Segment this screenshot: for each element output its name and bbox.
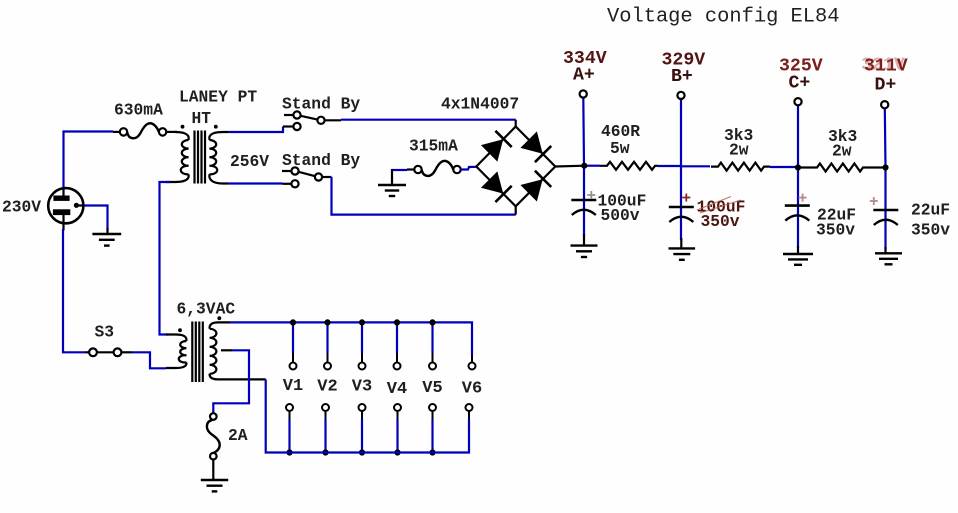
svg-text:256V: 256V — [230, 152, 269, 171]
svg-text:350v: 350v — [911, 221, 950, 240]
wire S1 to bridge top — [341, 119, 516, 121]
terminal V4 heater bottom — [394, 404, 401, 411]
capacitor C2 100uF 350v — [669, 194, 694, 223]
svg-text:V3: V3 — [352, 378, 372, 397]
svg-text:V6: V6 — [462, 380, 482, 399]
diode D1 (left-top) — [482, 131, 512, 161]
wire heater stub V5 top — [431, 322, 433, 353]
svg-text:2w: 2w — [832, 142, 852, 161]
svg-text:5w: 5w — [610, 139, 630, 158]
svg-text:315mA: 315mA — [409, 137, 458, 156]
switch S3 — [86, 348, 132, 356]
wire T2 center tap to fuse F3 — [213, 350, 249, 413]
wire heater stub V3 bottom — [361, 411, 363, 419]
diode D3 (left-bottom) — [482, 172, 512, 202]
svg-text:4x1N4007: 4x1N4007 — [441, 95, 519, 114]
wire heater stub V2 top — [326, 322, 328, 353]
wire ground to fuse F2 — [392, 169, 407, 171]
junction heater bottom V4 — [394, 449, 400, 455]
junction heater top V2 — [324, 319, 330, 325]
junction heater bottom V1 — [286, 449, 292, 455]
junction heater top V1 — [290, 319, 296, 325]
svg-text:V1: V1 — [283, 377, 303, 396]
terminal V5 heater bottom — [429, 404, 436, 411]
svg-text:A+: A+ — [573, 66, 595, 86]
terminal V2 heater bottom — [322, 404, 329, 411]
ground near plug — [92, 234, 121, 246]
terminal V4 heater top — [394, 363, 401, 370]
svg-text:6,3VAC: 6,3VAC — [177, 299, 236, 318]
wire F2 to bridge left — [461, 167, 477, 170]
fuse F3 2A — [207, 413, 220, 459]
node C junction dot — [795, 164, 801, 170]
bridge rectifier 4x1N4007 — [476, 120, 584, 215]
phase dot left — [181, 125, 185, 129]
wire plug right to ground — [84, 206, 108, 231]
wire heater stub V1 bottom — [289, 411, 291, 419]
svg-text:S3: S3 — [95, 322, 115, 341]
capacitor C1 100uF 500v — [571, 191, 596, 215]
wire plug-top to fuse F1 — [64, 132, 114, 189]
phase dot T2 left — [178, 328, 182, 332]
junction heater bottom V5 — [429, 449, 435, 455]
terminal A+ — [580, 90, 587, 97]
wire HT primary bottom to T2 primary top — [160, 182, 171, 335]
wire heater stub V2 bottom — [325, 411, 327, 419]
phase dot right — [214, 125, 218, 129]
wire heater stub V3 top — [361, 322, 363, 353]
svg-text:630mA: 630mA — [114, 101, 163, 120]
svg-text:LANEY PT: LANEY PT — [179, 88, 257, 107]
svg-text:230V: 230V — [2, 198, 41, 217]
terminal V3 heater top — [359, 363, 366, 370]
wire HT secondary bottom to S2 — [228, 182, 283, 184]
wire heater top rail — [230, 322, 472, 355]
terminal D+ — [881, 101, 888, 108]
junction heater top V4 — [394, 319, 400, 325]
wire B+ terminal down through rail to capacitor C2 — [680, 99, 682, 240]
svg-text:C+: C+ — [789, 73, 811, 93]
resistor R2 3k3 2w (left) — [711, 163, 770, 171]
node D junction dot — [882, 164, 888, 170]
terminal V3 heater bottom — [359, 404, 366, 411]
svg-text:350v: 350v — [701, 212, 740, 231]
node A junction dot — [581, 163, 587, 169]
terminal V1 heater bottom — [286, 404, 293, 411]
mains plug P1 230V — [48, 188, 85, 231]
transformer T1 LANEY PT (HT) — [166, 131, 228, 184]
wire rail B+ to C+ — [681, 165, 710, 167]
ground at C4 — [875, 253, 902, 264]
svg-text:V5: V5 — [422, 379, 442, 398]
svg-text:B+: B+ — [671, 67, 693, 87]
svg-text:D+: D+ — [875, 75, 897, 95]
ground at C1 — [571, 246, 598, 257]
resistor R3 3k3 2w (right) — [801, 164, 884, 172]
transformer T2 6,3VAC — [166, 322, 266, 383]
svg-text:V2: V2 — [317, 378, 337, 397]
terminal V6 heater top — [469, 363, 476, 370]
fuse F1 630mA — [113, 123, 177, 138]
svg-text:V4: V4 — [387, 380, 407, 399]
svg-text:22uF: 22uF — [911, 200, 950, 219]
ground at C3 — [783, 254, 813, 265]
wire F3 to ground — [212, 460, 214, 481]
wire heater stub V5 bottom — [432, 411, 434, 419]
wire C+ terminal down through rail to capacitor C3 — [797, 105, 799, 248]
resistor R1 460R 5w — [600, 162, 658, 170]
svg-text:Stand By: Stand By — [282, 95, 360, 114]
capacitor C3 22uF 350v — [785, 194, 810, 221]
svg-text:Stand By: Stand By — [282, 151, 360, 170]
wire plug bottom to S3 — [63, 229, 86, 352]
svg-text:HT: HT — [192, 109, 212, 128]
wire heater bottom rail — [266, 379, 469, 452]
red scribble artifact — [697, 197, 741, 214]
wire A+ terminal down to node A — [582, 98, 585, 237]
svg-text:350v: 350v — [816, 221, 855, 240]
wire heater stub V4 top — [396, 322, 398, 353]
ground at F2 — [378, 185, 406, 196]
junction heater bottom V3 — [359, 449, 365, 455]
switch S1 Stand By — [283, 111, 341, 130]
junction heater bottom V2 — [322, 449, 328, 455]
terminal V1 heater top — [290, 363, 297, 370]
wire rail A+ to B+ — [584, 165, 600, 167]
diode D4 (bottom-right) — [521, 171, 551, 201]
switch S2 Stand By — [282, 167, 332, 187]
wire HT secondary top to S1 — [228, 127, 283, 133]
diode D2 (top-right) — [521, 132, 551, 162]
terminal V5 heater top — [429, 363, 436, 370]
phase dot T2 right — [217, 316, 221, 320]
ground at C2 — [669, 248, 696, 259]
wire S3 to T2 primary bottom — [132, 352, 167, 368]
terminal B+ — [677, 92, 684, 99]
ground at F3 — [201, 480, 228, 491]
svg-text:Voltage config EL84: Voltage config EL84 — [607, 6, 840, 29]
terminal V2 heater top — [324, 363, 331, 370]
junction heater top V5 — [429, 319, 435, 325]
wire heater stub V4 bottom — [397, 411, 399, 419]
terminal C+ — [794, 98, 801, 105]
fuse F2 315mA — [407, 161, 461, 176]
capacitor C4 22uF 350v — [870, 197, 899, 225]
junction heater top V3 — [359, 319, 365, 325]
wire D+ terminal down through rail to capacitor C4 — [884, 108, 887, 249]
terminal V6 heater bottom — [466, 404, 473, 411]
svg-text:2A: 2A — [228, 426, 248, 445]
svg-text:2w: 2w — [729, 141, 749, 160]
wire S2 to bridge bottom — [332, 177, 516, 215]
svg-text:500v: 500v — [601, 206, 640, 225]
wire heater stub V1 top — [292, 322, 294, 353]
svg-text:311V: 311V — [864, 57, 908, 77]
